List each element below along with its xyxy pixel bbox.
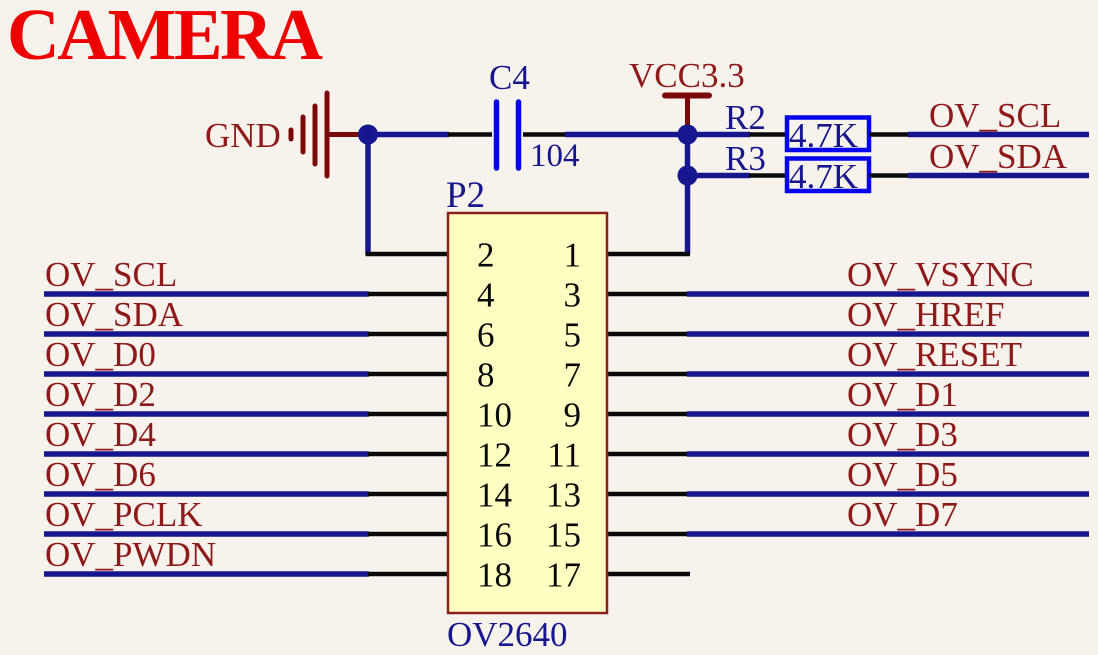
wire pin 17 stub (black) bbox=[606, 572, 690, 577]
wire OV_PCLK (left) bbox=[44, 531, 369, 537]
wire pin 18 stub (black) bbox=[368, 572, 449, 577]
wire R2 to OV_SCL bbox=[908, 132, 1089, 138]
svg-text:4: 4 bbox=[477, 276, 495, 315]
svg-text:9: 9 bbox=[564, 396, 582, 435]
wire VCC node to R2 bbox=[688, 132, 751, 138]
wire C4 left pin (black stub) bbox=[448, 132, 492, 137]
svg-text:11: 11 bbox=[547, 436, 581, 475]
resistor R2 bbox=[787, 118, 869, 151]
wire C4 to VCC node bbox=[565, 132, 688, 138]
svg-text:14: 14 bbox=[477, 476, 512, 515]
svg-text:OV_HREF: OV_HREF bbox=[847, 295, 1005, 334]
wire R2 right pin (black stub) bbox=[869, 132, 909, 137]
svg-text:OV_D6: OV_D6 bbox=[45, 455, 156, 494]
wire OV_D3 (right) bbox=[687, 451, 1089, 457]
svg-text:OV_D2: OV_D2 bbox=[45, 375, 156, 414]
svg-text:13: 13 bbox=[546, 476, 581, 515]
svg-text:5: 5 bbox=[564, 316, 582, 355]
svg-text:10: 10 bbox=[477, 396, 512, 435]
wire R3 to OV_SDA bbox=[908, 173, 1089, 179]
svg-text:CAMERA: CAMERA bbox=[7, 0, 323, 75]
wire OV_D2 (left) bbox=[44, 411, 369, 417]
svg-text:R3: R3 bbox=[725, 139, 766, 178]
wire pin 11 stub (black) bbox=[606, 452, 688, 457]
wire OV_VSYNC (right) bbox=[687, 291, 1089, 297]
wire pin 2 stub (black) bbox=[366, 252, 450, 257]
wire R2 left pin (black stub) bbox=[749, 132, 787, 137]
wire pin 4 stub (black) bbox=[368, 292, 449, 297]
wire pin 15 stub (black) bbox=[606, 532, 688, 537]
wire OV_D0 (left) bbox=[44, 371, 369, 377]
node GND junction bbox=[358, 125, 378, 145]
svg-text:4.7K: 4.7K bbox=[789, 116, 858, 155]
connector P2 body bbox=[448, 213, 607, 613]
svg-text:8: 8 bbox=[477, 356, 495, 395]
wire OV_HREF (right) bbox=[687, 331, 1089, 337]
svg-text:17: 17 bbox=[546, 556, 581, 595]
svg-text:OV_SDA: OV_SDA bbox=[45, 295, 184, 334]
svg-text:OV_D1: OV_D1 bbox=[847, 375, 958, 414]
ground bbox=[291, 93, 367, 176]
svg-text:OV_D5: OV_D5 bbox=[847, 455, 958, 494]
svg-text:OV_D0: OV_D0 bbox=[45, 335, 156, 374]
node VCC junction bbox=[678, 125, 698, 145]
svg-text:OV2640: OV2640 bbox=[447, 615, 568, 654]
svg-text:OV_D3: OV_D3 bbox=[847, 415, 958, 454]
svg-text:15: 15 bbox=[546, 516, 581, 555]
wire pin 8 stub (black) bbox=[368, 372, 449, 377]
wire GND node to C4 left bbox=[368, 132, 449, 138]
node R3 junction bbox=[678, 166, 698, 186]
svg-text:OV_RESET: OV_RESET bbox=[847, 335, 1022, 374]
svg-text:OV_PWDN: OV_PWDN bbox=[45, 535, 216, 574]
svg-text:18: 18 bbox=[477, 556, 512, 595]
wire R3 node to R3 bbox=[688, 173, 751, 179]
svg-text:4.7K: 4.7K bbox=[789, 157, 858, 196]
svg-text:104: 104 bbox=[530, 138, 580, 174]
wire pin 10 stub (black) bbox=[368, 412, 449, 417]
wire pin 3 stub (black) bbox=[606, 292, 688, 297]
wire R3 node down to pin 1 bbox=[685, 176, 691, 255]
svg-text:OV_D4: OV_D4 bbox=[45, 415, 156, 454]
svg-text:2: 2 bbox=[477, 236, 495, 275]
wire pin 16 stub (black) bbox=[368, 532, 449, 537]
wire C4 right pin (black stub) bbox=[523, 132, 566, 137]
svg-text:12: 12 bbox=[477, 436, 512, 475]
wire OV_D5 (right) bbox=[687, 491, 1089, 497]
svg-text:OV_SCL: OV_SCL bbox=[929, 96, 1061, 135]
svg-text:16: 16 bbox=[477, 516, 512, 555]
wire OV_D6 (left) bbox=[44, 491, 369, 497]
svg-text:OV_D7: OV_D7 bbox=[847, 495, 958, 534]
wire OV_SCL (left) bbox=[44, 291, 369, 297]
svg-text:OV_SCL: OV_SCL bbox=[45, 255, 177, 294]
wire pin 9 stub (black) bbox=[606, 412, 688, 417]
svg-text:VCC3.3: VCC3.3 bbox=[629, 56, 745, 95]
capacitor C4 bbox=[497, 102, 519, 168]
wire OV_D1 (right) bbox=[687, 411, 1089, 417]
wire R3 right pin (black stub) bbox=[869, 173, 909, 178]
wire OV_D7 (right) bbox=[687, 531, 1089, 537]
wire OV_SDA (left) bbox=[44, 331, 369, 337]
svg-text:3: 3 bbox=[564, 276, 582, 315]
wire OV_RESET (right) bbox=[687, 371, 1089, 377]
svg-text:C4: C4 bbox=[489, 58, 530, 97]
svg-text:7: 7 bbox=[564, 356, 582, 395]
wire pin 7 stub (black) bbox=[606, 372, 688, 377]
svg-text:OV_PCLK: OV_PCLK bbox=[45, 495, 203, 534]
svg-text:OV_SDA: OV_SDA bbox=[929, 137, 1068, 176]
wire pin 5 stub (black) bbox=[606, 332, 688, 337]
wire pin 12 stub (black) bbox=[368, 452, 449, 457]
resistor R3 bbox=[787, 159, 869, 192]
svg-text:6: 6 bbox=[477, 316, 495, 355]
power VCC3.3 bbox=[665, 96, 709, 134]
wire VCC node down to R3 node bbox=[685, 135, 691, 176]
svg-text:1: 1 bbox=[564, 236, 582, 275]
wire pin 6 stub (black) bbox=[368, 332, 449, 337]
svg-text:R2: R2 bbox=[725, 98, 766, 137]
svg-text:GND: GND bbox=[205, 116, 281, 155]
wire pin 13 stub (black) bbox=[606, 492, 688, 497]
wire GND node down to pin 2 bbox=[365, 135, 371, 255]
wire OV_D4 (left) bbox=[44, 451, 369, 457]
wire R3 left pin (black stub) bbox=[749, 173, 787, 178]
svg-text:OV_VSYNC: OV_VSYNC bbox=[847, 255, 1034, 294]
wire OV_PWDN (left) bbox=[44, 571, 369, 577]
wire pin 1 stub (black) bbox=[606, 252, 690, 257]
svg-text:P2: P2 bbox=[446, 175, 485, 216]
wire pin 14 stub (black) bbox=[368, 492, 449, 497]
